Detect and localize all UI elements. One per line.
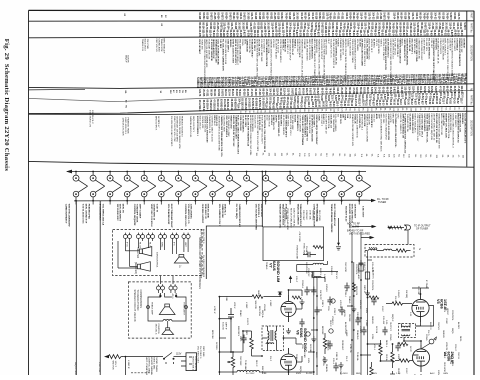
svg-text:4.5MCCOILVERT.1W: 4.5MCCOILVERT.1W: [418, 38, 420, 59]
resistor R41: [386, 302, 412, 305]
tube heater V1: [73, 172, 88, 201]
svg-text:63-521: 63-521: [269, 12, 271, 20]
svg-text:112-04: 112-04: [321, 30, 324, 38]
svg-text:OSC DEF: OSC DEF: [239, 356, 241, 366]
tube heater V12: [263, 172, 278, 201]
svg-text:6BQ5 C: 6BQ5 C: [401, 38, 403, 46]
svg-text:12AU7 63-1234-VOL 470K: 12AU7 63-1234-VOL 470K: [173, 116, 176, 142]
svg-text:66-10: 66-10: [321, 101, 323, 108]
svg-text:115V: 115V: [176, 353, 182, 356]
svg-text:86-12: 86-12: [261, 81, 263, 88]
svg-text:TRANS-PEAKING CARBON: TRANS-PEAKING CARBON: [330, 204, 333, 233]
svg-text:VERT FIL.Y: VERT FIL.Y: [281, 39, 283, 51]
svg-text:86-12: 86-12: [268, 81, 270, 88]
svg-text:0.01-VERT COIL.V: 0.01-VERT COIL.V: [396, 38, 398, 57]
svg-text:39PF SHIE: 39PF SHIE: [202, 346, 204, 357]
svg-text:86-124: 86-124: [264, 30, 267, 38]
svg-text:63-824: 63-824: [288, 30, 291, 38]
svg-text:FIL RES: FIL RES: [443, 304, 445, 313]
svg-text:47-221: 47-221: [206, 89, 209, 97]
svg-text:FIL 10% MFD RES S: FIL 10% MFD RES S: [427, 38, 429, 59]
svg-text:4.5MC IF: 4.5MC IF: [127, 360, 129, 369]
svg-text:63-11: 63-11: [458, 78, 460, 84]
svg-text:66-104: 66-104: [400, 12, 403, 20]
tube V5 6CB6: [412, 294, 429, 322]
svg-text:121-76: 121-76: [423, 30, 425, 38]
svg-text:63-: 63-: [462, 107, 464, 110]
svg-text:39PF: 39PF: [245, 330, 247, 336]
svg-text:47-221: 47-221: [370, 30, 373, 38]
svg-text:12AU7 1K 470K EL: 12AU7 1K 470K EL: [293, 208, 296, 227]
svg-text:47-: 47-: [424, 108, 426, 111]
V8 label: [296, 328, 307, 352]
svg-text:SYNC12: SYNC12: [307, 268, 309, 277]
svg-text:63-824: 63-824: [313, 30, 316, 38]
svg-text:66-10: 66-10: [339, 101, 341, 108]
svg-text:78-: 78-: [125, 105, 127, 108]
svg-text:47-221: 47-221: [443, 30, 446, 38]
svg-text:63-824: 63-824: [348, 12, 351, 20]
svg-text:1W RES-HORIZ-63-1234 WW.YOKE: 1W RES-HORIZ-63-1234 WW.YOKE: [218, 116, 220, 152]
svg-text:SHIELD.PE: SHIELD.PE: [368, 114, 370, 126]
svg-text:121-7: 121-7: [257, 81, 259, 88]
svg-text:78-93: 78-93: [198, 82, 200, 89]
svg-text:20-: 20-: [248, 111, 250, 114]
svg-text:CONTROL RES 0.01.0: CONTROL RES 0.01.0: [184, 204, 186, 227]
svg-text:121-76: 121-76: [305, 88, 307, 96]
svg-text:66-10: 66-10: [318, 101, 320, 108]
tube designation label V11: [235, 201, 246, 227]
svg-text:TWEETER: TWEETER: [136, 247, 138, 259]
svg-text:112-0: 112-0: [231, 82, 233, 88]
svg-text:63-1234-5% SHIELD: 63-1234-5% SHIELD: [282, 115, 284, 135]
svg-text:MFD-TRA: MFD-TRA: [258, 306, 261, 316]
svg-text:112-0: 112-0: [198, 106, 200, 112]
svg-text:DEFL 600V-TRA: DEFL 600V-TRA: [325, 39, 328, 55]
svg-text:SHIELD-: SHIELD-: [229, 39, 231, 48]
extra density labels: [225, 266, 459, 380]
svg-text:0.01 DEF: 0.01 DEF: [219, 39, 221, 49]
svg-text:39PF1K-0.01SHIELD 1W: 39PF1K-0.01SHIELD 1W: [401, 114, 403, 139]
svg-text:112-0: 112-0: [361, 100, 363, 106]
svg-text:63-: 63-: [419, 108, 421, 111]
svg-text:78-93: 78-93: [367, 80, 369, 87]
svg-text:66-104: 66-104: [301, 88, 304, 96]
svg-text:COIL: COIL: [327, 306, 329, 312]
svg-text:6BQ5.: 6BQ5.: [451, 328, 453, 334]
extra short wires: [219, 232, 429, 362]
svg-text:66-10: 66-10: [377, 80, 379, 87]
svg-text:66-104: 66-104: [363, 12, 366, 20]
wire 2nd IF net: [361, 344, 404, 361]
svg-text:63-: 63-: [285, 110, 287, 113]
svg-text:20-305: 20-305: [298, 30, 300, 38]
svg-text:6BQ5 A: 6BQ5 A: [261, 310, 264, 318]
svg-text:S-827: S-827: [444, 79, 446, 86]
svg-text:HTR-: HTR-: [349, 114, 351, 119]
svg-text:CHOKE: CHOKE: [348, 314, 350, 322]
svg-text:66-10: 66-10: [264, 81, 266, 88]
speaker SP3: [174, 255, 188, 264]
svg-text:S-827: S-827: [430, 79, 432, 86]
svg-text:86-: 86-: [303, 109, 305, 112]
svg-text:6BQ5 F: 6BQ5 F: [391, 314, 393, 322]
svg-text:100K.FIL 1: 100K.FIL 1: [224, 204, 226, 216]
svg-text:FIL-2: FIL-2: [269, 356, 271, 362]
svg-text:121-7: 121-7: [421, 79, 423, 86]
wire sound takeoff drop: [261, 172, 263, 227]
svg-text:66-10: 66-10: [410, 79, 412, 86]
svg-text:63-521: 63-521: [229, 30, 231, 38]
svg-text:0.047 W: 0.047 W: [156, 204, 159, 213]
svg-text:ELEC.0.01: ELEC.0.01: [215, 116, 217, 127]
svg-text:63-: 63-: [388, 108, 390, 111]
extra right labels: [437, 304, 461, 376]
svg-text:100K 39: 100K 39: [335, 352, 337, 361]
svg-text:CER VOL.VO: CER VOL.VO: [155, 39, 157, 52]
tube heater V10: [227, 172, 242, 201]
svg-text:47-221: 47-221: [216, 30, 219, 38]
svg-text:CONTROL.ELEC 6BQ5-47: CONTROL.ELEC 6BQ5-47: [236, 39, 238, 66]
svg-text:OSC HOR: OSC HOR: [344, 262, 346, 272]
svg-text:63-: 63-: [453, 107, 455, 110]
svg-text:63-: 63-: [299, 109, 301, 112]
svg-text:86-12: 86-12: [210, 82, 212, 89]
svg-text:OSC OUTPUT 1: OSC OUTPUT 1: [410, 38, 412, 55]
svg-text:78-: 78-: [262, 153, 264, 156]
svg-text:V7: V7: [269, 263, 273, 268]
svg-text:66-104: 66-104: [271, 30, 274, 38]
svg-text:86-124: 86-124: [303, 12, 306, 20]
svg-text:CHO: CHO: [397, 114, 399, 119]
svg-text:78-93: 78-93: [311, 81, 313, 88]
svg-text:MFD COI: MFD COI: [355, 286, 357, 295]
sound section rail: [218, 297, 220, 375]
tube designation label V7: [167, 201, 178, 229]
svg-text:ELEC.3: ELEC.3: [429, 322, 431, 330]
svg-text:47-: 47-: [457, 155, 459, 158]
svg-text:FIL.100K.10%-EL: FIL.100K.10%-EL: [394, 38, 396, 56]
svg-text:47-221: 47-221: [376, 12, 379, 20]
svg-text:CONTROL.100K RES-W: CONTROL.100K RES-W: [356, 114, 358, 139]
svg-text:86-: 86-: [332, 153, 334, 156]
svg-text:112-04: 112-04: [384, 30, 387, 38]
svg-text:100K: 100K: [225, 296, 227, 302]
tube heater V6: [158, 172, 173, 201]
svg-text:104-22: 104-22: [338, 30, 341, 38]
svg-text:20-30: 20-30: [353, 80, 355, 87]
svg-text:63-118: 63-118: [235, 89, 237, 97]
connector P1: [123, 233, 131, 241]
connector P6: [182, 233, 190, 241]
svg-text:63-11: 63-11: [226, 105, 228, 111]
svg-text:86-12: 86-12: [289, 102, 291, 109]
resistor R25 680K: [252, 295, 263, 299]
svg-text:63-11: 63-11: [208, 82, 210, 88]
svg-text:DEFL 0.01 CH: DEFL 0.01 CH: [277, 39, 279, 53]
svg-text:MFD.OUTPUT.: MFD.OUTPUT.: [154, 116, 156, 131]
svg-text:63-52: 63-52: [279, 103, 281, 110]
svg-text:20-: 20-: [452, 155, 454, 158]
svg-text:104-22: 104-22: [260, 30, 263, 38]
svg-text:78-934: 78-934: [356, 12, 359, 20]
svg-text:6BQ5 0.01.1W 39PF-1K HTR: 6BQ5 0.01.1W 39PF-1K HTR: [205, 39, 207, 68]
svg-text:10% CARBON COIL Y: 10% CARBON COIL Y: [218, 204, 221, 227]
svg-text:OF TUNER: OF TUNER: [416, 228, 428, 231]
svg-text:63-82: 63-82: [386, 80, 388, 87]
svg-text:CONTR: CONTR: [127, 55, 129, 63]
svg-text:78-934: 78-934: [430, 30, 433, 38]
tube heater V13: [287, 172, 302, 201]
volume control R21: [227, 352, 235, 375]
svg-text:63-82: 63-82: [292, 102, 294, 109]
svg-text:66-: 66-: [428, 108, 430, 111]
svg-text:YOKE.TUBULAR HOR: YOKE.TUBULAR HOR: [286, 208, 289, 230]
svg-text:66-10: 66-10: [437, 79, 439, 86]
svg-text:VOL.CON: VOL.CON: [322, 356, 324, 366]
shielded cable to IF input: [388, 225, 411, 230]
misc ground symbols: [300, 299, 305, 305]
svg-text:66-10: 66-10: [451, 79, 453, 86]
svg-text:63-824: 63-824: [280, 12, 283, 20]
svg-text:121-76: 121-76: [411, 12, 413, 20]
svg-text:63-82: 63-82: [325, 80, 327, 87]
svg-text:20-305: 20-305: [285, 30, 287, 38]
svg-text:COILSYNC HOR: COILSYNC HOR: [222, 115, 224, 132]
svg-text:63-824: 63-824: [402, 30, 405, 38]
wire speaker loop: [148, 293, 186, 321]
svg-text:20-: 20-: [353, 108, 355, 111]
svg-text:0.047-HORIZ 470: 0.047-HORIZ 470: [89, 110, 91, 128]
svg-text:47-221: 47-221: [306, 30, 309, 38]
svg-text:112-04: 112-04: [272, 88, 275, 96]
svg-text:YOKE C: YOKE C: [380, 39, 382, 48]
svg-text:OSCVO: OSCVO: [437, 322, 439, 330]
resistor R27: [353, 283, 356, 292]
inductor L2: [369, 247, 378, 250]
svg-text:HORIZ: HORIZ: [446, 308, 448, 315]
svg-text:10% PEAKING HOR: 10% PEAKING HOR: [167, 204, 170, 225]
resistor R42: [398, 342, 408, 345]
svg-text:86-124: 86-124: [345, 30, 348, 38]
svg-text:63-52: 63-52: [213, 105, 215, 112]
svg-text:104-2: 104-2: [206, 105, 209, 112]
wire trap leads: [365, 250, 396, 252]
svg-text:YOKE5%100K: YOKE5%100K: [296, 245, 298, 260]
svg-text:63-: 63-: [401, 108, 403, 111]
svg-text:SHIELDVERT0.014.5MC-5%1W SHI: SHIELDVERT0.014.5MC-5%1W SHI: [438, 113, 440, 148]
svg-text:104-2: 104-2: [258, 103, 261, 110]
svg-text:86-124: 86-124: [419, 12, 422, 20]
svg-text:PEAKIN: PEAKIN: [325, 364, 328, 372]
svg-text:66-: 66-: [263, 110, 265, 113]
svg-text:63-11: 63-11: [196, 82, 198, 88]
svg-text:CER C: CER C: [329, 320, 331, 327]
svg-text:63-11: 63-11: [351, 80, 353, 86]
svg-text:10% FIL-FIL C: 10% FIL-FIL C: [91, 110, 93, 124]
svg-text:0.01HO: 0.01HO: [397, 290, 399, 298]
svg-text:63-11: 63-11: [292, 81, 294, 87]
svg-text:TV-RADIO-PHONO: TV-RADIO-PHONO: [136, 290, 139, 311]
speaker SP1 tweeter: [140, 247, 152, 256]
svg-text:63-521: 63-521: [316, 88, 318, 96]
svg-text:20-30: 20-30: [393, 79, 395, 86]
svg-text:121-76: 121-76: [457, 12, 459, 20]
svg-text:63-118: 63-118: [198, 12, 200, 20]
svg-text:20-305: 20-305: [407, 12, 409, 20]
tube designation label V8: [184, 201, 195, 227]
svg-text:ELEC 0.0: ELEC 0.0: [322, 114, 324, 124]
svg-text:OUTPU: OUTPU: [275, 115, 277, 123]
svg-text:FIL.C: FIL.C: [345, 356, 347, 362]
svg-text:SPEAKER CIRCUIT USED IN: SPEAKER CIRCUIT USED IN: [133, 290, 136, 322]
svg-text:ELEC FIL 6B: ELEC FIL 6B: [408, 38, 410, 51]
svg-text:SHIELD 0.047 I: SHIELD 0.047 I: [296, 39, 298, 54]
svg-text:OSCSYNC 100K COND: OSCSYNC 100K COND: [415, 38, 417, 62]
AGC line to RF: [352, 226, 374, 228]
svg-text:63-11: 63-11: [223, 105, 225, 111]
tube designation label V6: [150, 201, 161, 228]
tube designation label V10: [218, 201, 229, 227]
svg-text:63-52: 63-52: [375, 100, 377, 107]
svg-text:47K.COIL YOKE SHIELD CER 22K.R: 47K.COIL YOKE SHIELD CER 22K.RES S: [322, 39, 324, 80]
svg-text:VERT OSC 0.01.10%.6: VERT OSC 0.01.10%.6: [150, 204, 152, 228]
svg-text:66-10: 66-10: [463, 78, 465, 85]
svg-text:112-04: 112-04: [392, 12, 395, 20]
svg-text:63-: 63-: [432, 108, 434, 111]
coupling network under takeoff box: [297, 261, 338, 282]
svg-text:63-11: 63-11: [203, 82, 205, 88]
svg-text:OSC.H: OSC.H: [457, 352, 459, 359]
svg-text:47-: 47-: [457, 107, 459, 110]
svg-text:COND COILCOI: COND COILCOI: [439, 38, 441, 54]
svg-text:63-118: 63-118: [219, 30, 221, 38]
svg-text:5%CER FIL 1: 5%CER FIL 1: [257, 204, 259, 218]
svg-text:600V 1/2W RES.22: 600V 1/2W RES.22: [351, 204, 353, 224]
svg-text:22K YOKE: 22K YOKE: [146, 39, 148, 50]
svg-text:VOL ELE: VOL ELE: [272, 39, 274, 48]
svg-text:66-: 66-: [344, 108, 346, 111]
svg-text:4.5MC: 4.5MC: [310, 272, 312, 279]
svg-text:CONTROL CHOKE SHIELD.1/2W: CONTROL CHOKE SHIELD.1/2W: [178, 116, 180, 149]
svg-text:1K RES: 1K RES: [215, 342, 217, 350]
wire IF couplings: [404, 322, 421, 345]
svg-text:V5: V5: [436, 299, 440, 304]
svg-text:112-0: 112-0: [307, 102, 309, 108]
svg-text:63-118: 63-118: [315, 12, 317, 20]
svg-text:CER HOR: CER HOR: [443, 362, 445, 372]
svg-text:112-04: 112-04: [224, 89, 227, 97]
svg-text:CHOKE.4.5MC COND-CONTROL-0: CHOKE.4.5MC COND-CONTROL-0: [452, 113, 454, 148]
svg-text:63-824: 63-824: [202, 12, 205, 20]
tube designation label V15: [313, 201, 324, 227]
svg-text:OSC OSC T: OSC OSC T: [320, 114, 322, 126]
V5 label: [436, 299, 447, 311]
svg-text:SOCKETCONDFIL 1: SOCKETCONDFIL 1: [196, 116, 198, 137]
svg-text:MFD YOKE 63-1: MFD YOKE 63-1: [361, 114, 363, 131]
svg-text:DEFL 4: DEFL 4: [385, 340, 387, 348]
svg-text:FIL 600V RES 12AU7 SOCKET-: FIL 600V RES 12AU7 SOCKET-: [170, 116, 173, 147]
extra heater labels right: [345, 206, 365, 222]
svg-text:HTR-5% 100K: HTR-5% 100K: [207, 204, 209, 219]
svg-text:COND-: COND-: [241, 39, 243, 46]
svg-text:78-93: 78-93: [273, 81, 275, 88]
svg-text:MFD SHI: MFD SHI: [211, 330, 213, 339]
svg-text:121-7: 121-7: [339, 80, 341, 87]
svg-text:63-: 63-: [249, 152, 251, 155]
svg-text:63-: 63-: [316, 109, 318, 112]
ground arrow above V7: [290, 277, 292, 284]
svg-text:VOL SYNC VOLY: VOL SYNC VOLY: [197, 346, 199, 363]
svg-text:0.047-PE: 0.047-PE: [389, 114, 391, 123]
svg-text:66-10: 66-10: [392, 99, 394, 106]
svg-text:63-: 63-: [285, 153, 287, 156]
svg-text:121-76: 121-76: [367, 12, 369, 20]
svg-text:39PF IF: 39PF IF: [225, 322, 227, 330]
svg-text:78-93: 78-93: [286, 102, 288, 109]
svg-text:S-827: S-827: [454, 79, 456, 86]
svg-text:CHOKE MFD 10: CHOKE MFD 10: [153, 204, 155, 221]
svg-text:VOL 4: VOL 4: [373, 344, 375, 351]
svg-text:20-30: 20-30: [378, 100, 380, 107]
svg-text:4.5MC: 4.5MC: [245, 302, 247, 309]
svg-text:104-22: 104-22: [363, 30, 366, 38]
svg-text:1K 12A: 1K 12A: [375, 326, 378, 334]
svg-text:63-118: 63-118: [294, 88, 296, 96]
svg-text:S-8273: S-8273: [221, 89, 223, 97]
svg-text:63-52: 63-52: [251, 104, 253, 111]
svg-text:66-10: 66-10: [290, 81, 292, 88]
svg-text:112-0: 112-0: [311, 102, 313, 108]
svg-text:63-12: 63-12: [381, 306, 383, 312]
svg-text:S-827: S-827: [371, 100, 373, 107]
svg-text:86-: 86-: [124, 91, 126, 94]
svg-text:1/2W.1K 10%.CER: 1/2W.1K 10%.CER: [122, 118, 124, 137]
svg-text:FIL.3: FIL.3: [149, 242, 151, 246]
svg-text:63-824: 63-824: [225, 12, 228, 20]
svg-text:86-124: 86-124: [266, 12, 269, 20]
svg-text:YOKEP: YOKEP: [359, 326, 361, 334]
svg-text:63-: 63-: [294, 110, 296, 113]
svg-text:DESCRIPTION: DESCRIPTION: [470, 45, 472, 61]
svg-text:S-8273: S-8273: [383, 12, 385, 20]
svg-text:600VCONTROL: 600VCONTROL: [156, 252, 158, 268]
svg-text:63-11: 63-11: [347, 100, 349, 106]
svg-text:6BQ5 63-1234 Y: 6BQ5 63-1234 Y: [192, 116, 194, 132]
wire B+ feed arrow: [361, 237, 372, 239]
connector P7: [156, 284, 164, 293]
svg-text:VOL HORIZ.OUTPUT: VOL HORIZ.OUTPUT: [320, 39, 322, 61]
svg-text:ELECTUBULAR 12AU7: ELECTUBULAR 12AU7: [170, 204, 173, 229]
svg-text:S-8273: S-8273: [210, 12, 212, 20]
svg-text:86-12: 86-12: [283, 81, 285, 88]
svg-text:WW CHO: WW CHO: [339, 114, 341, 124]
svg-text:86-: 86-: [447, 155, 449, 158]
svg-text:47K.V: 47K.V: [171, 294, 173, 300]
inductor L1 voice coil: [163, 320, 172, 322]
svg-text:OSC WW-100K: OSC WW-100K: [291, 115, 293, 131]
svg-text:78-934: 78-934: [267, 30, 270, 38]
svg-text:S-827: S-827: [424, 99, 426, 106]
svg-text:IF VO: IF VO: [126, 242, 128, 247]
svg-text:121-76: 121-76: [359, 30, 361, 38]
svg-text:5": 5": [179, 265, 181, 269]
svg-text:0.047.600V: 0.047.600V: [362, 206, 365, 218]
svg-text:63-118: 63-118: [242, 89, 244, 97]
svg-text:S-8273: S-8273: [295, 30, 297, 38]
svg-text:PART No.: PART No.: [470, 23, 473, 33]
svg-text:63-118: 63-118: [274, 30, 276, 38]
